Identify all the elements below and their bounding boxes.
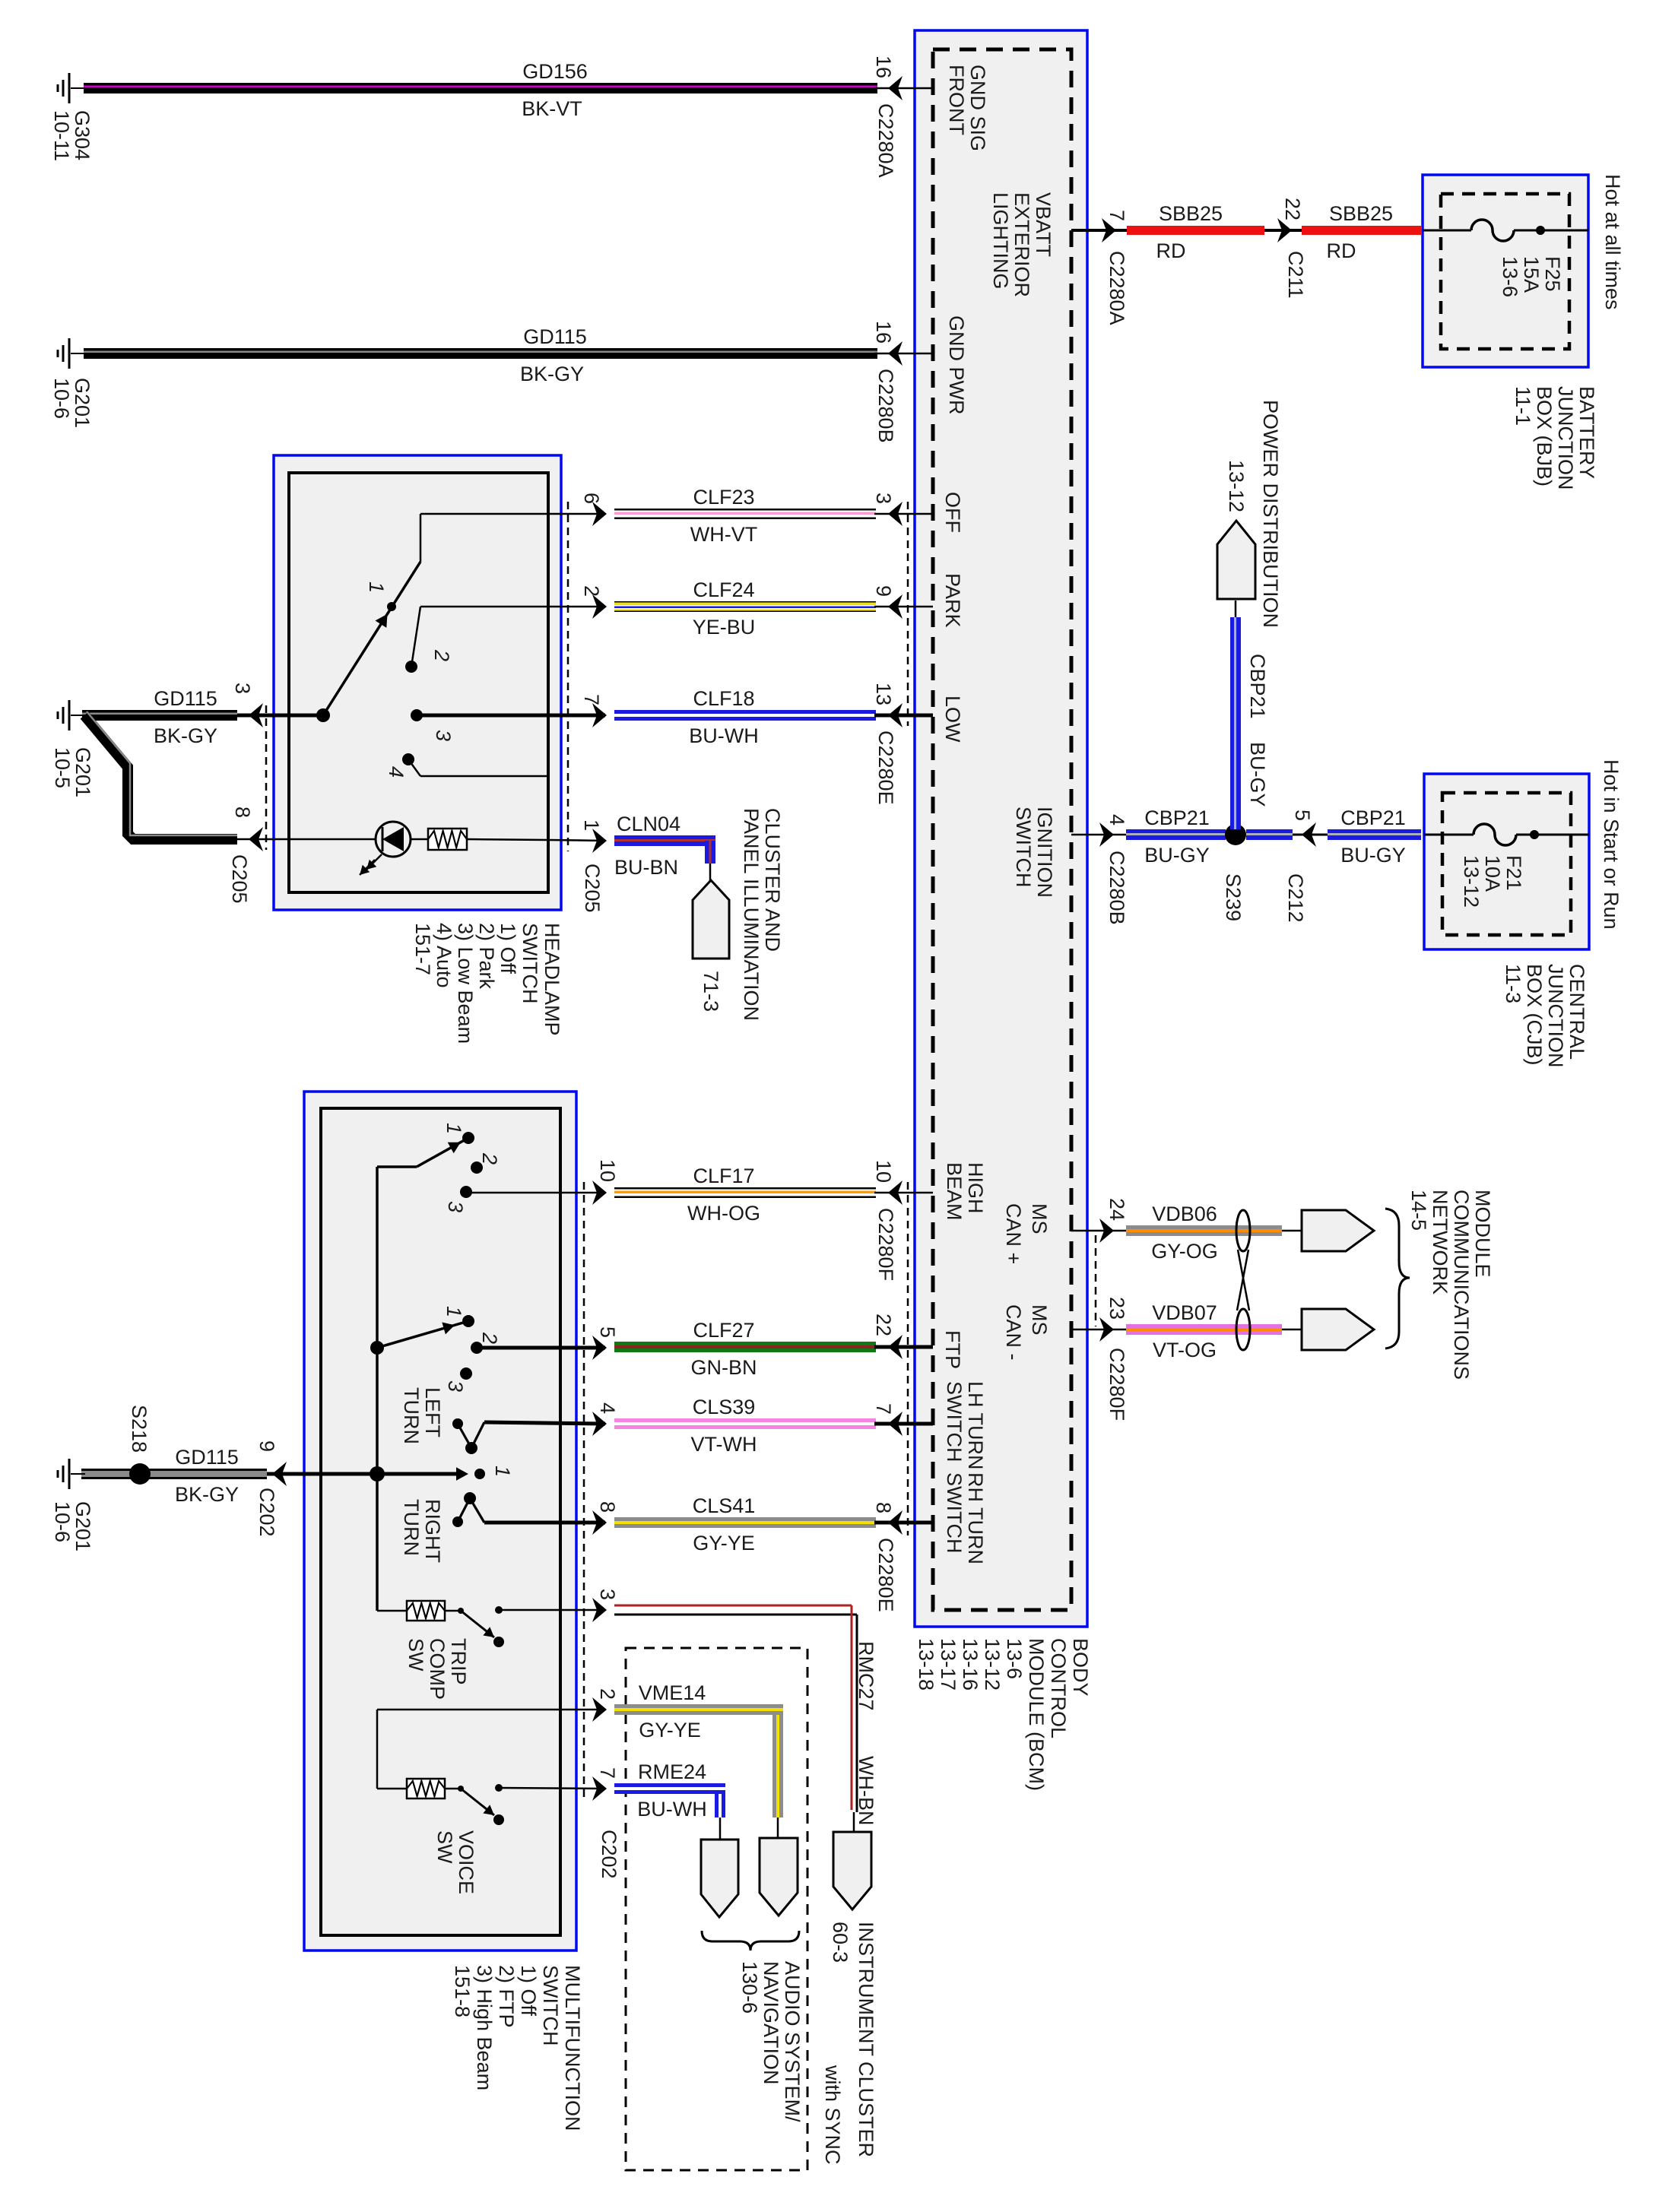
svg-text:G201: G201	[71, 378, 94, 428]
svg-text:GY-YE: GY-YE	[693, 1532, 755, 1554]
svg-text:TRIP: TRIP	[447, 1638, 470, 1685]
wire CLF18 labels	[689, 687, 758, 747]
svg-text:13-17: 13-17	[937, 1638, 960, 1691]
svg-text:CBP21: CBP21	[1246, 654, 1269, 719]
svg-text:SBB25: SBB25	[1159, 202, 1223, 225]
label CLUSTER AND PANEL ILLUMINATION	[740, 808, 784, 1021]
node pin 2 multifunction out	[377, 1688, 619, 1722]
label with SYNC	[821, 2065, 844, 2165]
wire GD115 BK-GY upper	[84, 348, 877, 359]
node pin 9 C202 multifunction	[237, 1440, 291, 1537]
wire CLF24 YE-BU	[614, 601, 876, 612]
svg-text:GD156: GD156	[522, 60, 588, 83]
svg-text:1: 1	[443, 1306, 465, 1317]
svg-text:13-18: 13-18	[915, 1638, 937, 1691]
svg-text:MS: MS	[1028, 1203, 1051, 1234]
svg-text:CLS41: CLS41	[693, 1494, 756, 1517]
svg-text:CBP21: CBP21	[1144, 807, 1210, 829]
svg-text:BEAM: BEAM	[943, 1162, 966, 1221]
svg-text:7: 7	[1106, 210, 1128, 221]
node pin 24 MS CAN+	[1071, 1198, 1128, 1243]
svg-text:NAVIGATION: NAVIGATION	[760, 1961, 782, 2085]
connector dashed line C2280E at BCM left	[907, 502, 909, 726]
svg-text:SWITCH: SWITCH	[519, 923, 541, 1003]
module network connector top	[1302, 1210, 1374, 1251]
node pin 7 headlamp LOW out	[417, 694, 607, 727]
splice S218	[128, 1405, 151, 1485]
node pin 13 C2280E BCM LOW	[872, 683, 933, 805]
label 71-3	[700, 971, 722, 1012]
wire VME14 labels	[639, 1681, 706, 1741]
ground G201 10-6 lower	[58, 1459, 85, 1489]
svg-text:13-6: 13-6	[1499, 256, 1521, 297]
label LEFT TURN	[400, 1387, 444, 1444]
svg-text:13: 13	[872, 683, 895, 705]
svg-text:COMMUNICATIONS: COMMUNICATIONS	[1450, 1190, 1473, 1380]
svg-text:13-16: 13-16	[959, 1638, 982, 1691]
wire GD115 branch diagonal	[84, 711, 237, 839]
svg-text:VBATT: VBATT	[1032, 192, 1055, 257]
svg-text:7: 7	[580, 694, 603, 705]
wire SBB25 seg2 labels	[1327, 202, 1394, 262]
svg-text:SWITCH: SWITCH	[539, 1965, 562, 2046]
svg-text:CLUSTER AND: CLUSTER AND	[761, 808, 784, 952]
svg-text:COMP: COMP	[426, 1638, 449, 1700]
high beam switch	[377, 1123, 501, 1212]
svg-text:PARK: PARK	[941, 573, 964, 628]
connector C212	[1284, 810, 1328, 923]
svg-text:16: 16	[872, 321, 895, 344]
svg-text:22: 22	[1281, 198, 1304, 220]
CJB name label	[1502, 964, 1588, 1068]
svg-text:YE-BU: YE-BU	[693, 616, 756, 639]
voice switch	[458, 1784, 605, 1825]
svg-text:NETWORK: NETWORK	[1429, 1190, 1451, 1295]
svg-text:RH TURN: RH TURN	[964, 1472, 987, 1564]
module network connector bottom	[1302, 1309, 1374, 1350]
svg-text:CLF17: CLF17	[693, 1165, 754, 1187]
svg-text:BU-GY: BU-GY	[1340, 844, 1406, 867]
headlamp switch name label	[411, 923, 563, 1044]
wire CBP21 BU-GY seg3	[1328, 829, 1421, 840]
svg-text:PANEL ILLUMINATION: PANEL ILLUMINATION	[740, 808, 763, 1021]
BCM pin PARK	[941, 573, 964, 628]
voice resistor	[407, 1779, 460, 1798]
node pin 2 headlamp PARK out	[420, 585, 607, 619]
wire GD115 BK-GY headlamp upper	[82, 710, 237, 721]
wire CLS41 GY-YE	[614, 1517, 876, 1528]
svg-text:LEFT: LEFT	[421, 1387, 444, 1437]
svg-text:VDB06: VDB06	[1152, 1203, 1217, 1225]
LH turn momentary switch	[452, 1418, 484, 1454]
svg-text:5: 5	[1291, 810, 1314, 821]
node pin 7 C2280A VBATT	[1071, 210, 1128, 325]
contact 3	[411, 709, 455, 741]
wire CLF17 labels	[687, 1165, 760, 1225]
svg-text:SW: SW	[433, 1830, 456, 1864]
svg-text:CLS39: CLS39	[693, 1396, 756, 1418]
svg-text:10: 10	[596, 1159, 619, 1182]
wire GD115 BK-GY at S218	[81, 1469, 267, 1479]
svg-text:3) High Beam: 3) High Beam	[473, 1965, 496, 2090]
svg-text:4: 4	[1106, 814, 1128, 826]
node pin 4 C2280B IGNITION	[1071, 814, 1128, 925]
svg-text:9: 9	[872, 585, 895, 597]
svg-text:10-6: 10-6	[51, 1501, 74, 1542]
svg-text:13-12: 13-12	[1225, 460, 1248, 512]
svg-text:TURN: TURN	[400, 1387, 423, 1444]
wire VDB07 VT-OG	[1126, 1324, 1302, 1335]
node pin 4 multifunction out	[484, 1402, 619, 1436]
svg-text:2) Park: 2) Park	[475, 923, 498, 990]
node pin 10 multifunction out	[466, 1159, 619, 1205]
wire CLF24 labels	[693, 578, 756, 639]
svg-text:2: 2	[580, 585, 603, 597]
svg-text:AUDIO SYSTEM/: AUDIO SYSTEM/	[781, 1961, 804, 2122]
BCM pin VBATT EXTERIOR LIGHTING	[989, 192, 1055, 297]
BCM pin LOW	[941, 696, 964, 743]
svg-text:13-12: 13-12	[981, 1638, 1004, 1691]
node pin 1 C205 headlamp out	[548, 819, 607, 913]
svg-text:5: 5	[596, 1326, 619, 1338]
svg-text:151-8: 151-8	[451, 1965, 474, 2017]
RH turn momentary switch	[452, 1492, 484, 1527]
wire CLF27 labels	[691, 1319, 757, 1379]
svg-text:14-5: 14-5	[1407, 1190, 1430, 1231]
svg-text:6: 6	[580, 493, 603, 504]
ground G201 upper label	[50, 378, 94, 428]
svg-text:BATTERY: BATTERY	[1575, 386, 1598, 479]
svg-text:with SYNC: with SYNC	[821, 2065, 844, 2165]
wire CBP21 BU-GY seg1	[1126, 829, 1226, 840]
ground G201 10-5 label	[51, 747, 94, 797]
contact 4	[385, 753, 548, 778]
svg-text:C2280E: C2280E	[874, 730, 897, 805]
node pin 8 C2280E BCM RH TURN	[872, 1502, 933, 1612]
svg-text:Hot in Start or Run: Hot in Start or Run	[1600, 759, 1623, 930]
svg-text:G201: G201	[71, 1501, 94, 1551]
svg-text:VT-WH: VT-WH	[691, 1433, 757, 1456]
svg-text:C2280F: C2280F	[1106, 1348, 1128, 1421]
wire VME14 GY-YE	[614, 1704, 783, 1817]
connector C211	[1264, 198, 1307, 299]
ground G201 10-6 lower label	[51, 1501, 94, 1551]
node pin 22 BCM FTP	[872, 1314, 933, 1359]
label POWER DISTRIBUTION 13-12	[1225, 400, 1282, 628]
node pin 8 C205 headlamp	[228, 807, 376, 904]
label Hot at all times	[1601, 174, 1624, 310]
svg-text:2: 2	[430, 649, 453, 661]
svg-text:2: 2	[478, 1152, 501, 1165]
svg-text:GN-BN: GN-BN	[691, 1356, 757, 1379]
power distribution connector	[1217, 521, 1255, 617]
svg-text:1: 1	[491, 1466, 514, 1477]
svg-text:SWITCH: SWITCH	[943, 1472, 966, 1553]
node pin 3 headlamp ground	[231, 683, 289, 727]
BJB name label	[1512, 386, 1598, 490]
cluster panel illumination connector	[693, 864, 729, 959]
svg-text:C2280A: C2280A	[874, 103, 897, 178]
svg-text:71-3: 71-3	[700, 971, 722, 1012]
wire SBB25 RD seg2	[1302, 226, 1421, 235]
svg-text:MODULE: MODULE	[1471, 1190, 1494, 1278]
svg-text:WH-OG: WH-OG	[687, 1202, 760, 1225]
svg-text:8: 8	[231, 807, 254, 818]
svg-text:4) Auto: 4) Auto	[433, 923, 455, 988]
svg-text:OFF: OFF	[941, 492, 964, 533]
fuse F21 10A	[1424, 824, 1589, 908]
wire RME24 BU-WH	[614, 1783, 725, 1817]
trip comp resistor	[377, 1601, 460, 1621]
wire CBP21 vertical to power distribution	[1230, 617, 1241, 829]
BCM pin GND SIG FRONT	[945, 65, 989, 151]
svg-text:1: 1	[443, 1123, 465, 1134]
svg-text:130-6: 130-6	[738, 1961, 761, 2014]
svg-text:9: 9	[255, 1440, 278, 1452]
module network brace	[1385, 1209, 1410, 1348]
svg-text:16: 16	[872, 55, 895, 78]
svg-text:SWITCH: SWITCH	[943, 1381, 966, 1462]
svg-text:4: 4	[385, 766, 408, 778]
svg-text:3: 3	[444, 1201, 467, 1212]
svg-text:BU-GY: BU-GY	[1246, 742, 1269, 807]
svg-text:C202: C202	[255, 1488, 278, 1537]
connector dashed line headlamp left	[265, 705, 268, 850]
svg-text:S218: S218	[128, 1405, 151, 1453]
panel illumination lamp	[360, 822, 411, 875]
wire VDB06 GY-OG	[1126, 1225, 1302, 1236]
wire CLF17 WH-OG	[614, 1187, 876, 1198]
svg-text:151-7: 151-7	[411, 923, 434, 975]
connector dashed line C2280F/E at BCM left lower	[907, 1182, 909, 1535]
svg-text:F21: F21	[1502, 855, 1525, 891]
svg-text:10-6: 10-6	[50, 378, 73, 419]
BCM pin RH TURN SWITCH	[943, 1472, 987, 1564]
node pin 5 multifunction out	[477, 1326, 619, 1360]
svg-text:WH-VT: WH-VT	[690, 523, 757, 546]
svg-text:3: 3	[231, 683, 254, 694]
node pin 9 BCM PARK	[872, 585, 933, 619]
svg-text:G304: G304	[71, 110, 94, 160]
svg-text:RD: RD	[1156, 239, 1186, 262]
headlamp rotary arm	[323, 562, 420, 715]
svg-text:VME14: VME14	[639, 1681, 706, 1704]
svg-text:C2280A: C2280A	[1106, 251, 1128, 325]
svg-text:CENTRAL: CENTRAL	[1566, 964, 1588, 1060]
contact 2	[405, 607, 453, 673]
svg-text:60-3: 60-3	[829, 1922, 852, 1963]
svg-text:1) Off: 1) Off	[496, 923, 519, 974]
ground G304	[58, 73, 85, 103]
svg-text:C2280F: C2280F	[874, 1208, 897, 1281]
BCM pin HIGH BEAM	[943, 1162, 987, 1221]
svg-text:23: 23	[1106, 1297, 1128, 1320]
BCM pin MS CAN +	[1002, 1203, 1051, 1264]
svg-text:VDB07: VDB07	[1152, 1301, 1217, 1324]
svg-text:22: 22	[872, 1314, 895, 1336]
svg-text:FRONT: FRONT	[945, 65, 968, 135]
svg-text:SWITCH: SWITCH	[1012, 807, 1035, 887]
svg-text:GND PWR: GND PWR	[945, 315, 968, 415]
svg-text:BU-WH: BU-WH	[637, 1798, 706, 1821]
BCM pin GND PWR	[945, 315, 968, 415]
svg-text:JUNCTION: JUNCTION	[1554, 386, 1577, 490]
wire CBP21 seg2	[1246, 829, 1293, 840]
fuse F25 15A	[1423, 220, 1588, 297]
svg-text:11-1: 11-1	[1512, 386, 1534, 426]
wire CBP21 seg1 labels	[1144, 807, 1210, 867]
svg-text:MODULE (BCM): MODULE (BCM)	[1025, 1638, 1048, 1791]
svg-text:LOW: LOW	[941, 696, 964, 743]
svg-text:CLF27: CLF27	[693, 1319, 754, 1342]
svg-text:VT-OG: VT-OG	[1153, 1339, 1217, 1361]
svg-text:BOX (CJB): BOX (CJB)	[1523, 964, 1546, 1066]
svg-text:C211: C211	[1284, 251, 1307, 299]
left turn switch	[370, 1306, 501, 1392]
svg-text:GD115: GD115	[154, 687, 217, 710]
svg-text:2) FTP: 2) FTP	[495, 1965, 518, 2028]
svg-text:C2280E: C2280E	[874, 1538, 897, 1612]
svg-text:7: 7	[872, 1403, 895, 1415]
wire SBB25 RD seg1	[1127, 226, 1264, 235]
illumination resistor	[411, 829, 548, 850]
svg-text:MS: MS	[1028, 1304, 1051, 1336]
wire CLF23 WH-VT	[614, 509, 876, 519]
node pin 7 BCM LH TURN	[872, 1403, 933, 1436]
label AUDIO SYSTEM NAVIGATION 130-6	[738, 1961, 804, 2122]
svg-text:INSTRUMENT CLUSTER: INSTRUMENT CLUSTER	[855, 1922, 877, 2157]
svg-text:3: 3	[432, 730, 455, 741]
svg-text:BOX (BJB): BOX (BJB)	[1533, 386, 1556, 486]
label MODULE COMMUNICATIONS NETWORK 14-5	[1407, 1190, 1494, 1380]
node pin 6 headlamp OFF out	[420, 493, 607, 526]
BCM pin FTP	[941, 1330, 964, 1369]
svg-text:VOICE: VOICE	[455, 1830, 477, 1894]
svg-text:GND SIG: GND SIG	[966, 65, 989, 151]
label INSTRUMENT CLUSTER 60-3	[829, 1922, 877, 2157]
svg-text:LIGHTING: LIGHTING	[989, 192, 1012, 290]
headlamp rotary switch common	[237, 708, 330, 722]
svg-text:C2280B: C2280B	[1106, 851, 1128, 925]
label TRIP COMP SW	[404, 1638, 470, 1700]
wire VDB06 labels	[1151, 1203, 1218, 1263]
wire GD115 S218 labels	[175, 1446, 239, 1506]
wire GD115 headlamp upper labels	[154, 687, 217, 747]
svg-text:C2280B: C2280B	[874, 369, 897, 443]
wire CBP21 vertical labels	[1246, 654, 1269, 807]
wire CLS39 labels	[691, 1396, 757, 1456]
wire CLF23 labels	[690, 486, 757, 546]
node pin 3 BCM OFF	[872, 493, 933, 526]
svg-text:GY-OG: GY-OG	[1151, 1240, 1218, 1263]
svg-text:4: 4	[596, 1402, 619, 1414]
contact 1 label	[365, 582, 388, 593]
BCM pin LH TURN SWITCH	[943, 1381, 987, 1470]
label RIGHT TURN	[400, 1499, 444, 1563]
svg-text:8: 8	[596, 1501, 619, 1513]
multifunction switch name label	[451, 1965, 584, 2131]
svg-text:JUNCTION: JUNCTION	[1544, 964, 1567, 1068]
svg-text:15A: 15A	[1520, 256, 1543, 293]
wire CLS41 labels	[693, 1494, 756, 1554]
svg-text:BK-GY: BK-GY	[154, 724, 217, 747]
battery junction box (BJB)	[1423, 175, 1588, 367]
svg-text:CLN04: CLN04	[617, 813, 680, 835]
svg-text:POWER DISTRIBUTION: POWER DISTRIBUTION	[1259, 400, 1282, 628]
svg-text:CBP21: CBP21	[1340, 807, 1406, 829]
svg-text:CLF24: CLF24	[693, 578, 754, 601]
ground G201 10-5	[58, 700, 85, 730]
twisted pair symbol	[1236, 1210, 1250, 1350]
svg-text:BU-BN: BU-BN	[614, 856, 678, 879]
svg-text:S239: S239	[1222, 873, 1245, 921]
wire RME24 labels	[637, 1760, 706, 1821]
svg-text:RME24: RME24	[638, 1760, 706, 1783]
svg-text:3: 3	[444, 1380, 467, 1392]
splice S239	[1222, 824, 1246, 921]
node pin 8 multifunction out	[484, 1501, 619, 1535]
node pin 3 multifunction out	[592, 1589, 619, 1622]
label VOICE SW	[433, 1830, 477, 1894]
svg-text:10-11: 10-11	[50, 110, 73, 161]
svg-text:7: 7	[596, 1767, 619, 1779]
svg-text:2: 2	[478, 1332, 501, 1344]
body control module (BCM) box	[915, 30, 1087, 1627]
wire CLS39 VT-WH	[614, 1418, 876, 1429]
svg-text:BK-GY: BK-GY	[175, 1483, 239, 1506]
svg-text:C205: C205	[228, 854, 251, 904]
svg-text:10-5: 10-5	[51, 747, 74, 788]
headlamp rotary arm to pin6 line	[420, 514, 422, 562]
wire CLF27 GN-BN	[614, 1342, 876, 1352]
node pin 7 C202 multifunction out	[592, 1767, 620, 1879]
svg-text:SW: SW	[404, 1638, 427, 1672]
svg-text:3) Low Beam: 3) Low Beam	[454, 923, 477, 1044]
svg-text:WH-BN: WH-BN	[855, 1756, 877, 1825]
svg-text:BU-GY: BU-GY	[1144, 844, 1210, 867]
svg-text:3: 3	[872, 493, 895, 504]
wire VDB07 labels	[1152, 1301, 1217, 1361]
node pin 10 C2280F BCM HIGH BEAM	[872, 1160, 933, 1281]
turn common bus	[376, 1167, 379, 1611]
svg-text:24: 24	[1106, 1198, 1128, 1221]
wire CLF18 BU-WH	[614, 710, 876, 721]
svg-text:BU-WH: BU-WH	[689, 724, 758, 747]
svg-text:C205: C205	[581, 864, 604, 913]
svg-text:1) Off: 1) Off	[517, 1965, 540, 2017]
svg-text:RD: RD	[1327, 239, 1356, 262]
svg-text:MULTIFUNCTION: MULTIFUNCTION	[561, 1965, 584, 2131]
svg-text:G201: G201	[71, 747, 94, 797]
BCM pin MS CAN -	[1002, 1304, 1051, 1361]
node pin 23 C2280F MS CAN-	[1071, 1297, 1128, 1421]
BCM pin IGNITION SWITCH	[1012, 807, 1056, 898]
svg-text:Hot at all times: Hot at all times	[1601, 174, 1624, 310]
common contact line	[291, 1466, 514, 1482]
svg-text:LH TURN: LH TURN	[964, 1381, 987, 1470]
label Hot in Start or Run	[1600, 759, 1623, 930]
svg-text:3: 3	[596, 1589, 619, 1600]
wire CLN04 labels	[614, 813, 680, 879]
svg-text:BODY: BODY	[1069, 1638, 1092, 1697]
audio connector right	[760, 1817, 798, 1916]
svg-text:RMC27: RMC27	[855, 1641, 877, 1711]
svg-text:EXTERIOR: EXTERIOR	[1010, 192, 1033, 297]
wire GD156 labels	[522, 60, 588, 120]
voice sw feed	[377, 1710, 407, 1789]
audio system dashed box	[626, 1648, 807, 2170]
BCM pin OFF	[941, 492, 964, 533]
